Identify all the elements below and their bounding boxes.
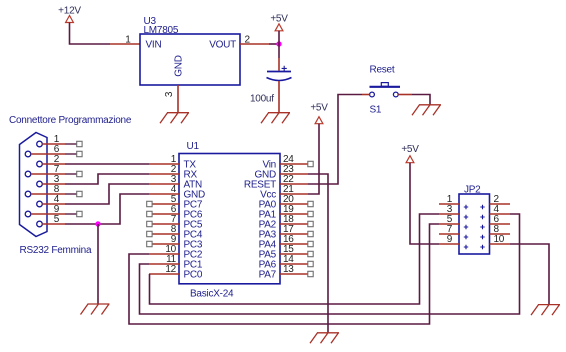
U1 pin 18 stub bbox=[280, 223, 308, 225]
svg-text:GND: GND bbox=[174, 55, 185, 77]
JP2 contact mark row 5 bbox=[464, 245, 468, 249]
U1 pin 11 stub bbox=[149, 263, 179, 265]
U1 pin 16 stub bbox=[280, 243, 308, 245]
U1 pin 1 stub bbox=[149, 163, 179, 165]
svg-text:Reset: Reset bbox=[370, 65, 395, 76]
U1 pin 22 stub bbox=[280, 183, 308, 185]
DB9 pin 3 stub bbox=[42, 183, 65, 185]
DB9 pin 9 stub bbox=[31, 213, 65, 215]
U1 pin 24 stub bbox=[280, 163, 308, 165]
wire U1 PC0 to JP2 pin 3 bbox=[150, 214, 440, 304]
U1 pin 20 unconnected square bbox=[308, 201, 313, 206]
DB9 pin 7 circle bbox=[25, 171, 31, 177]
svg-text:LM7805: LM7805 bbox=[144, 25, 179, 36]
ground bottom left bbox=[81, 304, 110, 315]
JP2 pin 3 stub bbox=[439, 213, 459, 215]
DB9 pin 6 stub bbox=[31, 153, 65, 155]
DB9 pin 1 open stub bbox=[65, 143, 77, 145]
DB9 pin 8 open stub bbox=[65, 193, 77, 195]
U1 pin 17 unconnected square bbox=[308, 231, 313, 236]
U1 pin 10 stub bbox=[149, 253, 179, 255]
junction +5V node bbox=[276, 41, 281, 46]
ground bottom right bbox=[531, 305, 560, 316]
JP2 contact mark row 2 bbox=[480, 215, 484, 219]
pushbutton S1 bbox=[370, 86, 401, 88]
U1 pin 17 stub bbox=[280, 233, 308, 235]
JP2 contact mark row 2 bbox=[464, 215, 468, 219]
DB9 pin 1 circle bbox=[37, 141, 43, 147]
pin 2 stub of U3 bbox=[240, 43, 269, 45]
JP2 pin 4 stub bbox=[490, 213, 511, 215]
JP2 pin 8 stub bbox=[490, 233, 511, 235]
wire VOUT to +5V node bbox=[269, 43, 279, 45]
wire S1 right to ground bbox=[412, 95, 430, 105]
DB9 pin 5 stub bbox=[42, 223, 65, 225]
header JP2 body bbox=[459, 194, 490, 254]
wire DB9-2 to U1 TX bbox=[65, 163, 149, 165]
U1 pin 9 unconnected square bbox=[147, 241, 152, 246]
JP2 pin 9 stub bbox=[439, 243, 459, 245]
wire +12V to U3 pin 1 bbox=[70, 23, 111, 45]
U1 pin 8 unconnected square bbox=[147, 231, 152, 236]
ground bottom center bbox=[310, 333, 339, 344]
U1 pin 21 stub bbox=[280, 193, 308, 195]
U1 pin 4 stub bbox=[149, 193, 179, 195]
wire +5V to U1 Vcc bbox=[308, 124, 319, 194]
svg-text:RS232 Femmina: RS232 Femmina bbox=[20, 245, 92, 256]
U1 pin 7 unconnected square bbox=[147, 221, 152, 226]
JP2 pin 1 stub bbox=[439, 203, 459, 205]
JP2 contact mark row 1 bbox=[464, 205, 468, 209]
DB9 pin 8 stub bbox=[31, 193, 65, 195]
JP2 contact mark row 3 bbox=[464, 225, 468, 229]
U1 pin 14 unconnected square bbox=[308, 261, 313, 266]
U1 pin 23 stub bbox=[280, 173, 308, 175]
U1 pin 13 unconnected square bbox=[308, 271, 313, 276]
microcontroller U1 body bbox=[179, 154, 280, 284]
wire U1 GND pin 23 to bottom ground bbox=[308, 174, 328, 333]
U1 pin 7 stub bbox=[152, 223, 179, 225]
DB9 pin 3 circle bbox=[37, 181, 43, 187]
U1 pin 15 unconnected square bbox=[308, 251, 313, 256]
U1 pin 15 stub bbox=[280, 253, 308, 255]
JP2 contact mark row 4 bbox=[480, 235, 484, 239]
ground under capacitor bbox=[261, 113, 290, 124]
capacitor C 100uf plates bbox=[267, 71, 291, 73]
power symbol +12V bbox=[66, 16, 74, 23]
wire JP2 pin 10 to ground bbox=[510, 244, 549, 305]
svg-text:PC0: PC0 bbox=[184, 270, 203, 281]
DB9 pin 7 stub bbox=[31, 173, 65, 175]
U1 pin 5 stub bbox=[152, 203, 179, 205]
U1 pin 16 unconnected square bbox=[308, 241, 313, 246]
JP2 pin 7 stub bbox=[439, 233, 459, 235]
svg-text:VIN: VIN bbox=[146, 40, 162, 51]
wire U1 PC1 to JP2 pin 4 bbox=[140, 214, 520, 314]
DB9 pin 2 circle bbox=[37, 161, 43, 167]
svg-text:Connettore Programmazione: Connettore Programmazione bbox=[9, 115, 132, 126]
wire DB9-4 to U1 ATN bbox=[65, 184, 149, 204]
power symbol +5V output bbox=[275, 24, 283, 31]
svg-text:+5V: +5V bbox=[401, 144, 419, 155]
DB9 pin 4 circle bbox=[37, 201, 43, 207]
wire node down to capacitor bbox=[278, 44, 280, 58]
svg-text:100uf: 100uf bbox=[250, 94, 274, 105]
svg-text:10: 10 bbox=[494, 234, 505, 245]
JP2 pin 10 stub bbox=[490, 243, 511, 245]
wire +5V symbol to node bbox=[278, 31, 280, 44]
U1 pin 19 unconnected square bbox=[308, 211, 313, 216]
ground at reset switch bbox=[412, 105, 441, 116]
U1 pin 9 stub bbox=[152, 243, 179, 245]
wire S1 left terminal to RESET net bbox=[308, 95, 362, 185]
pin stub S1 left bbox=[362, 94, 370, 96]
DB9 pin 1 stub bbox=[42, 143, 65, 145]
U1 pin 19 stub bbox=[280, 213, 308, 215]
DB9 pin 9 open stub bbox=[65, 213, 77, 215]
svg-text:BasicX-24: BasicX-24 bbox=[190, 289, 234, 300]
svg-text:+5V: +5V bbox=[270, 14, 288, 25]
DB9 pin 2 stub bbox=[42, 163, 65, 165]
DB9 pin 9 unconnected square bbox=[77, 211, 82, 216]
JP2 pin 5 stub bbox=[439, 223, 459, 225]
U1 pin 12 stub bbox=[149, 273, 179, 275]
wire U1 PC2 to JP2 pin 5 bbox=[129, 224, 439, 324]
JP2 contact mark row 1 bbox=[480, 205, 484, 209]
wire +5V to JP2 pin 9 bbox=[410, 163, 439, 244]
DB9 pin 4 stub bbox=[42, 203, 65, 205]
capacitor C bottom lead bbox=[278, 81, 280, 113]
svg-text:9: 9 bbox=[447, 234, 453, 245]
DB9 pin 7 open stub bbox=[65, 173, 77, 175]
JP2 pin 6 stub bbox=[490, 223, 511, 225]
pin 1 stub of U3 bbox=[110, 43, 140, 45]
svg-text:1: 1 bbox=[125, 35, 131, 46]
U1 pin 6 stub bbox=[152, 213, 179, 215]
capacitor C top lead bbox=[278, 58, 280, 71]
svg-text:2: 2 bbox=[245, 35, 251, 46]
power symbol +5V at Vcc bbox=[315, 117, 323, 124]
svg-text:5: 5 bbox=[54, 214, 60, 225]
DB9 pin 9 circle bbox=[25, 211, 31, 217]
DB9 pin 5 circle bbox=[37, 221, 43, 227]
svg-text:PA7: PA7 bbox=[259, 270, 277, 281]
DB9 pin 8 circle bbox=[25, 191, 31, 197]
U1 pin 14 stub bbox=[280, 263, 308, 265]
svg-text:U1: U1 bbox=[187, 141, 200, 152]
U1 pin 13 stub bbox=[280, 273, 308, 275]
U1 pin 24 unconnected square bbox=[308, 161, 313, 166]
DB9 connector X1 body bbox=[20, 133, 48, 237]
U1 pin 18 unconnected square bbox=[308, 221, 313, 226]
wire S1 right terminal stub bbox=[398, 94, 412, 96]
DB9 pin 1 unconnected square bbox=[77, 141, 82, 146]
svg-text:JP2: JP2 bbox=[464, 185, 481, 196]
DB9 pin 6 unconnected square bbox=[77, 151, 82, 156]
JP2 contact mark row 5 bbox=[480, 245, 484, 249]
U1 pin 3 stub bbox=[149, 183, 179, 185]
power symbol +5V at JP2 bbox=[406, 156, 414, 163]
pin 3 stub of U3 bbox=[177, 85, 179, 113]
voltage regulator U3 body bbox=[140, 34, 240, 85]
DB9 pin 7 unconnected square bbox=[77, 171, 82, 176]
svg-text:S1: S1 bbox=[370, 105, 382, 116]
U1 pin 2 stub bbox=[149, 173, 179, 175]
wire DB9-3 to U1 RX bbox=[65, 174, 149, 184]
junction DB9-5 ground tap bbox=[95, 221, 100, 226]
svg-text:VOUT: VOUT bbox=[209, 40, 236, 51]
DB9 pin 6 open stub bbox=[65, 153, 77, 155]
ground under U3 bbox=[160, 113, 189, 124]
U1 pin 20 stub bbox=[280, 203, 308, 205]
svg-text:3: 3 bbox=[164, 91, 175, 97]
wire ground drop from DB9-5 bbox=[97, 224, 99, 304]
JP2 contact mark row 3 bbox=[480, 225, 484, 229]
JP2 pin 2 stub bbox=[490, 203, 511, 205]
U1 pin 8 stub bbox=[152, 233, 179, 235]
svg-text:+5V: +5V bbox=[310, 103, 328, 114]
wire DB9-5 to U1 GND bbox=[65, 194, 149, 224]
DB9 pin 8 unconnected square bbox=[77, 191, 82, 196]
U1 pin 5 unconnected square bbox=[147, 201, 152, 206]
DB9 pin 6 circle bbox=[25, 151, 31, 157]
U1 pin 6 unconnected square bbox=[147, 211, 152, 216]
JP2 contact mark row 4 bbox=[464, 235, 468, 239]
